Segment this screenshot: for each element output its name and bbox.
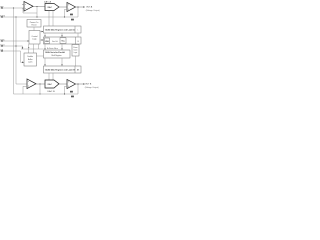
node rail-A junction <box>36 16 37 17</box>
wire fb A right <box>70 16 78 18</box>
arrow control down 1 <box>28 47 29 49</box>
svg-text:Double: Double <box>27 56 33 58</box>
svg-text:Logic: Logic <box>74 52 78 54</box>
svg-text:16-Bit DAC Register and Latch: 16-Bit DAC Register and Latch B <box>45 68 76 71</box>
svg-text:Shift Register: Shift Register <box>51 54 62 57</box>
arrow sclk <box>22 47 24 49</box>
wire reg to buf 3 <box>77 33 79 37</box>
pin OUT A tick <box>83 6 85 8</box>
wire gnd rail A <box>3 16 70 18</box>
wire fb B up <box>77 84 79 94</box>
wire bus down 2 <box>61 44 63 50</box>
node rail B junction <box>39 93 40 94</box>
DAC B symbol <box>45 80 59 88</box>
pin OUT B tick <box>83 83 85 85</box>
pin DIN tick <box>1 50 3 52</box>
svg-text:Reset: Reset <box>32 24 37 27</box>
svg-text:Down: Down <box>74 49 78 51</box>
DAC B register box <box>44 66 82 73</box>
wire control to reg A <box>40 31 43 33</box>
svg-text:Latch: Latch <box>28 61 32 64</box>
wire SCLK <box>3 46 23 49</box>
wire vref B horizontal <box>16 83 27 85</box>
wire pd down <box>75 56 77 66</box>
svg-text:L: L <box>78 69 79 71</box>
wire REF <box>3 7 24 9</box>
node fb B <box>64 93 65 94</box>
power-on reset box <box>27 20 41 28</box>
clock buffer latch box <box>24 53 37 66</box>
wire B2 inv <box>65 86 68 94</box>
wire DAC A out <box>59 6 67 8</box>
wire vref vertical bus 1 <box>13 8 15 94</box>
wire DAC B out <box>59 83 67 85</box>
node out A <box>77 6 78 7</box>
wire A2 out <box>76 6 84 8</box>
node fb A <box>64 16 65 17</box>
wire shift down 1 <box>44 58 46 66</box>
op-amp B1 buffer <box>27 79 36 89</box>
wire DAC A to register 1 <box>48 11 50 27</box>
svg-text:Power-On: Power-On <box>30 21 39 24</box>
arrow din <box>22 62 24 64</box>
svg-text:Logic: Logic <box>32 39 37 41</box>
wire reg B to DAC B 2 <box>52 73 54 80</box>
wire fb B right <box>70 93 78 95</box>
shift register box <box>44 50 71 58</box>
wire B1 inv <box>23 86 27 94</box>
svg-text:DAC B: DAC B <box>48 90 56 93</box>
wire control down 2 <box>33 44 35 49</box>
pin REF tick <box>1 7 3 9</box>
node out B <box>77 83 78 84</box>
svg-text:(Voltage Output): (Voltage Output) <box>86 9 100 12</box>
resistor R4 feedback B <box>71 96 74 98</box>
svg-text:Buffer: Buffer <box>28 59 33 61</box>
wire B2 out <box>76 83 84 85</box>
wire reg B to DAC B 1 <box>48 73 50 80</box>
wire fb A up <box>77 7 79 17</box>
op-amp A1 buffer <box>24 2 33 12</box>
control logic box <box>29 31 40 45</box>
op-amp B2 output buffer <box>67 80 76 89</box>
wire vertical bus 2 <box>15 17 17 84</box>
wire y49 to latch box 2 <box>33 49 35 53</box>
wire reg to buf 1 <box>44 33 46 37</box>
wire gnd rail B <box>14 93 71 95</box>
wire B1 branch <box>39 84 41 94</box>
svg-text:L: L <box>78 29 79 31</box>
wire shift down 2 <box>61 58 63 66</box>
svg-text:DAC A: DAC A <box>44 1 52 4</box>
wire reg to buf 2 <box>61 33 63 37</box>
svg-text:(Voltage Output): (Voltage Output) <box>85 86 99 89</box>
power down logic box <box>72 45 79 57</box>
wire A1 branch down <box>36 7 38 18</box>
wire control down 3 <box>38 44 40 49</box>
wire POR to control <box>33 27 35 31</box>
svg-text:OUT B: OUT B <box>85 84 92 86</box>
svg-text:DAC: DAC <box>48 83 53 86</box>
pin SYNC tick <box>1 40 3 42</box>
svg-text:Reg: Reg <box>61 41 64 43</box>
wire A1 out <box>33 6 45 8</box>
data buffer A box <box>44 37 82 44</box>
svg-text:16-Bit DAC Register and Latch: 16-Bit DAC Register and Latch A <box>45 28 75 31</box>
svg-text:B: B <box>78 41 79 43</box>
pin AGND tick <box>1 16 3 18</box>
svg-text:16-Bit Serial-to-Parallel: 16-Bit Serial-to-Parallel <box>45 51 66 54</box>
node gnd-branch <box>15 16 16 17</box>
resistor R2 feedback A <box>71 19 74 21</box>
op-amp A2 output buffer <box>67 3 76 12</box>
DAC A register box <box>44 26 82 33</box>
resistor R3 feedback B <box>70 91 73 93</box>
wire y49 to latch box 1 <box>28 49 30 53</box>
wire control to buf A <box>40 39 43 41</box>
wire control down 1 <box>28 44 30 48</box>
pin SCLK tick <box>1 45 3 47</box>
wire bus down 1 <box>44 44 46 50</box>
svg-text:Control: Control <box>31 35 38 38</box>
wire buffer to shift <box>37 55 44 57</box>
svg-text:DAC: DAC <box>48 6 53 9</box>
wire B1 out <box>36 83 45 85</box>
node A1 out <box>36 6 37 7</box>
svg-text:OUT A: OUT A <box>86 6 93 9</box>
node B1 out <box>39 83 40 84</box>
wire SYNC <box>3 40 29 42</box>
node sclk <box>15 45 16 46</box>
wire y49 <box>21 48 44 50</box>
wire A1 feedback <box>23 9 37 13</box>
resistor R1 feedback A <box>70 14 73 16</box>
node ref-branch <box>13 7 14 8</box>
wire A2 inv stub <box>65 9 68 17</box>
wire DIN <box>3 51 23 62</box>
DAC A symbol <box>45 4 59 11</box>
wire DAC A to register 2 <box>52 11 54 27</box>
